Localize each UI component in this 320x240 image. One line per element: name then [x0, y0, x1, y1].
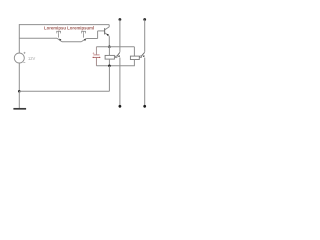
switch S2	[140, 52, 145, 57]
node junction bottom-left	[18, 90, 21, 93]
wire R1 top lead	[108, 47, 110, 56]
wire branch B upper	[144, 20, 146, 52]
transistor Q3	[105, 25, 110, 37]
wire branch A upper	[119, 20, 121, 52]
wire ground stub	[18, 91, 20, 108]
wire left rail upper	[18, 24, 20, 53]
wire base link horizontal	[98, 30, 105, 32]
voltage source V1	[14, 53, 24, 63]
wire branch A lower	[119, 58, 121, 107]
node emitter junction	[108, 46, 111, 49]
node terminal A bottom	[119, 105, 122, 108]
node terminal A top	[119, 18, 122, 21]
wire gate feed (left rail to Q1)	[19, 37, 57, 39]
V1 plus mark	[24, 52, 26, 54]
capacitor C1	[93, 52, 101, 58]
wire mid rail	[96, 65, 134, 67]
wire Q3 emitter down	[108, 36, 110, 47]
wire branch B lower	[144, 58, 146, 107]
svg-text:12V: 12V	[28, 56, 36, 61]
resistor R1	[105, 55, 114, 59]
wire mid horizontal	[96, 46, 134, 48]
transistor Q2	[81, 31, 86, 41]
ground	[13, 108, 26, 110]
wire Q1 to Q2	[62, 41, 81, 43]
wire R1 bottom lead	[108, 59, 110, 66]
wire riser mid-to-bottom	[108, 66, 110, 92]
wire base link vertical	[97, 31, 99, 39]
node terminal B top	[143, 18, 146, 21]
node mid rail junction	[108, 65, 111, 68]
transistor Q1	[56, 31, 62, 41]
svg-text:Loremipsu Loremipsuml: Loremipsu Loremipsuml	[44, 26, 94, 31]
wire top rail	[19, 24, 109, 26]
V1 minus mark	[23, 62, 25, 64]
wire Q2 to base link	[86, 38, 97, 40]
node terminal B bottom	[143, 105, 146, 108]
wire R2 top lead	[133, 47, 135, 56]
resistor R2	[130, 56, 139, 59]
switch S1	[115, 52, 120, 58]
wire left rail lower	[18, 63, 20, 92]
wire capacitor bottom lead	[95, 58, 97, 66]
wire R2 bottom lead	[133, 60, 135, 66]
wire bottom rail	[19, 90, 109, 92]
wire capacitor top lead	[95, 47, 97, 55]
